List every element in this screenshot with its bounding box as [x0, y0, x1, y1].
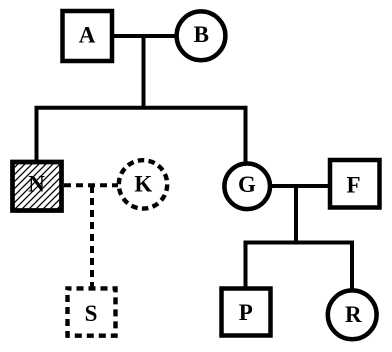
svg-text:N: N — [28, 172, 45, 197]
wire drop from G-F to sibling bar 2 — [294, 186, 298, 244]
wire dashed line N-K — [64, 183, 118, 187]
square F — [330, 160, 380, 208]
svg-text:B: B — [194, 22, 209, 47]
wire sibling bar 2 with drops to P and R — [246, 243, 353, 291]
svg-text:G: G — [238, 172, 256, 197]
dashed circle K — [119, 160, 167, 208]
square A — [63, 11, 113, 61]
svg-text:S: S — [85, 301, 98, 326]
svg-text:R: R — [345, 302, 362, 327]
wire dashed drop K to S — [90, 186, 94, 287]
svg-text:P: P — [239, 300, 253, 325]
svg-text:A: A — [79, 23, 96, 48]
circle B — [177, 11, 226, 60]
wire marriage line A-B — [111, 34, 178, 38]
wire sibling bar 1 with drops to N and G — [37, 108, 246, 163]
svg-text:K: K — [134, 171, 152, 196]
square P — [222, 289, 271, 336]
circle G — [224, 164, 270, 210]
svg-text:F: F — [346, 172, 360, 197]
dashed square S — [68, 288, 116, 335]
wire drop from A-B to sibling bar — [142, 36, 146, 109]
wire marriage line G-F — [270, 184, 330, 188]
hatched square N — [13, 162, 62, 211]
circle R — [328, 290, 377, 339]
